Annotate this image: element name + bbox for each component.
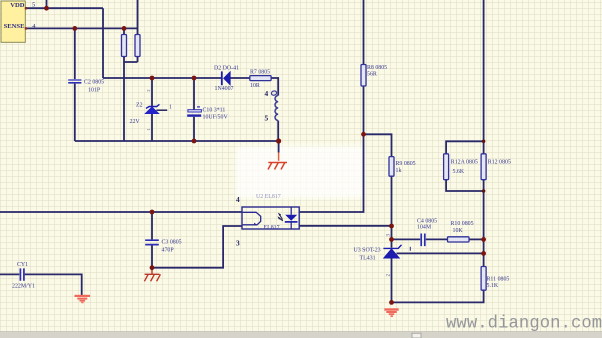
svg-text:1k: 1k xyxy=(396,168,402,174)
svg-text:R8 0805: R8 0805 xyxy=(367,65,387,71)
wire D2 to R7 xyxy=(230,77,250,79)
junction dot R12 top corner xyxy=(482,140,486,144)
junction dot C3 bottom xyxy=(150,265,155,270)
wire right vertical between nodes xyxy=(483,239,485,266)
wire stub up from VDD rail to top edge xyxy=(46,0,48,8)
wire SENSE rail xyxy=(25,27,137,29)
svg-text:D2 DO-41: D2 DO-41 xyxy=(214,66,239,72)
resistor R10 0805 xyxy=(448,221,474,242)
pin dot VDD xyxy=(25,7,28,10)
wire opto node down to TL431 xyxy=(391,226,393,248)
resistor R12A 0805 xyxy=(444,154,478,180)
wire right main vertical from top edge xyxy=(483,0,485,154)
svg-text:TL431: TL431 xyxy=(360,256,376,262)
wire VDD rail xyxy=(25,7,103,9)
power ground under CY1 xyxy=(75,296,91,303)
svg-text:C3 0805: C3 0805 xyxy=(162,240,182,246)
wire C3 vertical top xyxy=(151,212,153,239)
wire R9 down to opto node xyxy=(391,176,393,226)
wire inductor bottom to lower rail xyxy=(277,121,279,141)
junction dot R5 top xyxy=(122,26,127,31)
junction dot C2 top xyxy=(72,26,77,31)
wire lower-left rail xyxy=(75,140,279,142)
svg-text:4: 4 xyxy=(236,195,240,204)
junction dot right rail at ref run xyxy=(481,251,486,256)
diode D2 1N4007 xyxy=(214,66,239,92)
resistor R8 0805 xyxy=(361,65,387,87)
wire right vertical R12 to C4 node xyxy=(483,180,485,240)
junction dot zener top xyxy=(150,76,155,81)
svg-text:VDD: VDD xyxy=(10,2,25,9)
junction dot C3 top rail xyxy=(150,210,155,215)
wire junction down to opto right top xyxy=(299,134,363,212)
wire VDD vertical down to upper rail xyxy=(102,8,104,78)
svg-text:222M/Y1: 222M/Y1 xyxy=(12,284,35,290)
wire R7 to inductor corner xyxy=(271,78,278,96)
wire opto pin4 rail from left edge xyxy=(0,211,242,213)
svg-text:56R: 56R xyxy=(367,72,377,78)
svg-text:R12 0805: R12 0805 xyxy=(488,160,511,166)
svg-text:1N4007: 1N4007 xyxy=(215,86,234,92)
junction dot ground node xyxy=(389,300,394,305)
svg-text:CY1: CY1 xyxy=(17,262,28,268)
TL431 U3 xyxy=(354,245,411,262)
chassis ground under C3 xyxy=(144,268,160,282)
svg-text:5: 5 xyxy=(265,114,269,123)
wire zener branch xyxy=(151,78,153,141)
resistor R12 0805 xyxy=(481,154,511,180)
wire R5 branch and drop to lower rail xyxy=(123,28,125,141)
wire bottom return rail xyxy=(392,290,484,302)
wire C4 node run xyxy=(392,238,448,240)
svg-text:22V: 22V xyxy=(130,119,141,125)
capacitor C4 0805 xyxy=(417,218,437,246)
svg-text:R7 0805: R7 0805 xyxy=(250,69,270,75)
junction dot R12 bottom corner xyxy=(482,189,486,193)
wire CY1 to its ground xyxy=(25,274,82,295)
LED xyxy=(290,207,292,215)
svg-text:5.1K: 5.1K xyxy=(487,283,499,289)
junction dot opto node xyxy=(389,224,394,229)
wire C10 branch xyxy=(193,78,195,141)
wire opto pin3 path xyxy=(152,226,242,268)
white watermark blob (under schematic ink) xyxy=(236,146,365,198)
svg-text:5.6K: 5.6K xyxy=(453,169,465,175)
resistor R11 0805 xyxy=(481,267,509,291)
junction dot TL431 cathode node xyxy=(389,237,394,242)
svg-text:C10 3*11: C10 3*11 xyxy=(203,107,226,113)
resistor R7 0805 xyxy=(250,69,271,89)
wire TL431 ref run xyxy=(397,252,484,254)
svg-text:R11 0805: R11 0805 xyxy=(487,277,510,283)
junction dot VDD stub xyxy=(44,6,49,11)
bottom scrollbar strip xyxy=(0,332,602,338)
resistor R5 0805 (left of pair under SENSE) xyxy=(122,35,127,57)
svg-text:10R: 10R xyxy=(250,83,260,89)
power ground under TL431 xyxy=(384,310,398,317)
svg-text:Z2: Z2 xyxy=(136,103,143,109)
pin dot SENSE xyxy=(25,27,28,30)
capacitor C10 electrolytic xyxy=(187,107,228,120)
svg-text:R12A 0805: R12A 0805 xyxy=(451,160,478,166)
wire opto right bottom to node xyxy=(299,225,391,227)
svg-text:C4 0805: C4 0805 xyxy=(417,218,437,224)
svg-text:U2 EL817: U2 EL817 xyxy=(256,194,281,200)
chassis ground at inductor node xyxy=(268,141,287,170)
inductor T1 winding (pins 4-5) xyxy=(265,89,279,122)
svg-text:R9 0805: R9 0805 xyxy=(396,161,416,167)
svg-text:104M: 104M xyxy=(417,225,432,231)
wire R12 pair bottom connector xyxy=(446,180,484,191)
phototransistor xyxy=(243,212,261,225)
zener Z2 xyxy=(130,89,173,131)
resistor R9 0805 xyxy=(389,157,416,177)
wire top-edge drop to R6 xyxy=(137,0,139,34)
svg-text:4: 4 xyxy=(265,89,269,98)
svg-text:R10 0805: R10 0805 xyxy=(451,221,474,227)
wire R12 pair top connector xyxy=(446,141,484,154)
junction dot C10 top xyxy=(192,76,197,81)
svg-text:www.diangon.com: www.diangon.com xyxy=(446,315,602,334)
wire R10 to right rail xyxy=(469,238,484,240)
wire R8 vertical from top edge xyxy=(363,0,365,134)
light arrows xyxy=(280,215,283,220)
wire C3 vertical bottom xyxy=(151,245,153,267)
wire R8 junction to R9 xyxy=(364,134,392,156)
capacitor C2 0805 xyxy=(68,80,104,94)
junction dot right rail at C4 run xyxy=(481,237,486,242)
svg-text:101P: 101P xyxy=(88,88,101,94)
svg-text:C2 0805: C2 0805 xyxy=(84,80,104,86)
svg-text:10K: 10K xyxy=(453,228,464,234)
wire C2 branch vertical xyxy=(74,28,76,141)
svg-text:U3 SOT-23: U3 SOT-23 xyxy=(354,248,381,254)
capacitor C3 0805 xyxy=(145,240,181,254)
wire resistor-bottom connector xyxy=(124,57,138,63)
svg-text:3: 3 xyxy=(236,239,240,248)
wire upper rail left of D2 xyxy=(103,77,222,79)
svg-text:EL817: EL817 xyxy=(264,225,280,231)
optocoupler U2 EL817 xyxy=(242,194,299,231)
svg-text:470P: 470P xyxy=(162,248,175,254)
svg-text:1: 1 xyxy=(169,105,172,111)
wire TL431 anode down to ground node xyxy=(391,258,393,302)
capacitor CY1 xyxy=(12,262,35,290)
wire CY1 left stub from edge xyxy=(0,273,19,275)
resistor R6 0805 (right of pair) xyxy=(135,35,140,57)
IC U1 (VDD/SENSE controller box) xyxy=(1,1,25,42)
junction dot R8/R9 xyxy=(361,132,366,137)
junction dot C10 bottom xyxy=(192,139,197,144)
junction dot inductor/ground node xyxy=(276,138,281,143)
svg-text:10UF/50V: 10UF/50V xyxy=(203,114,229,120)
svg-text:SENSE: SENSE xyxy=(4,23,25,30)
